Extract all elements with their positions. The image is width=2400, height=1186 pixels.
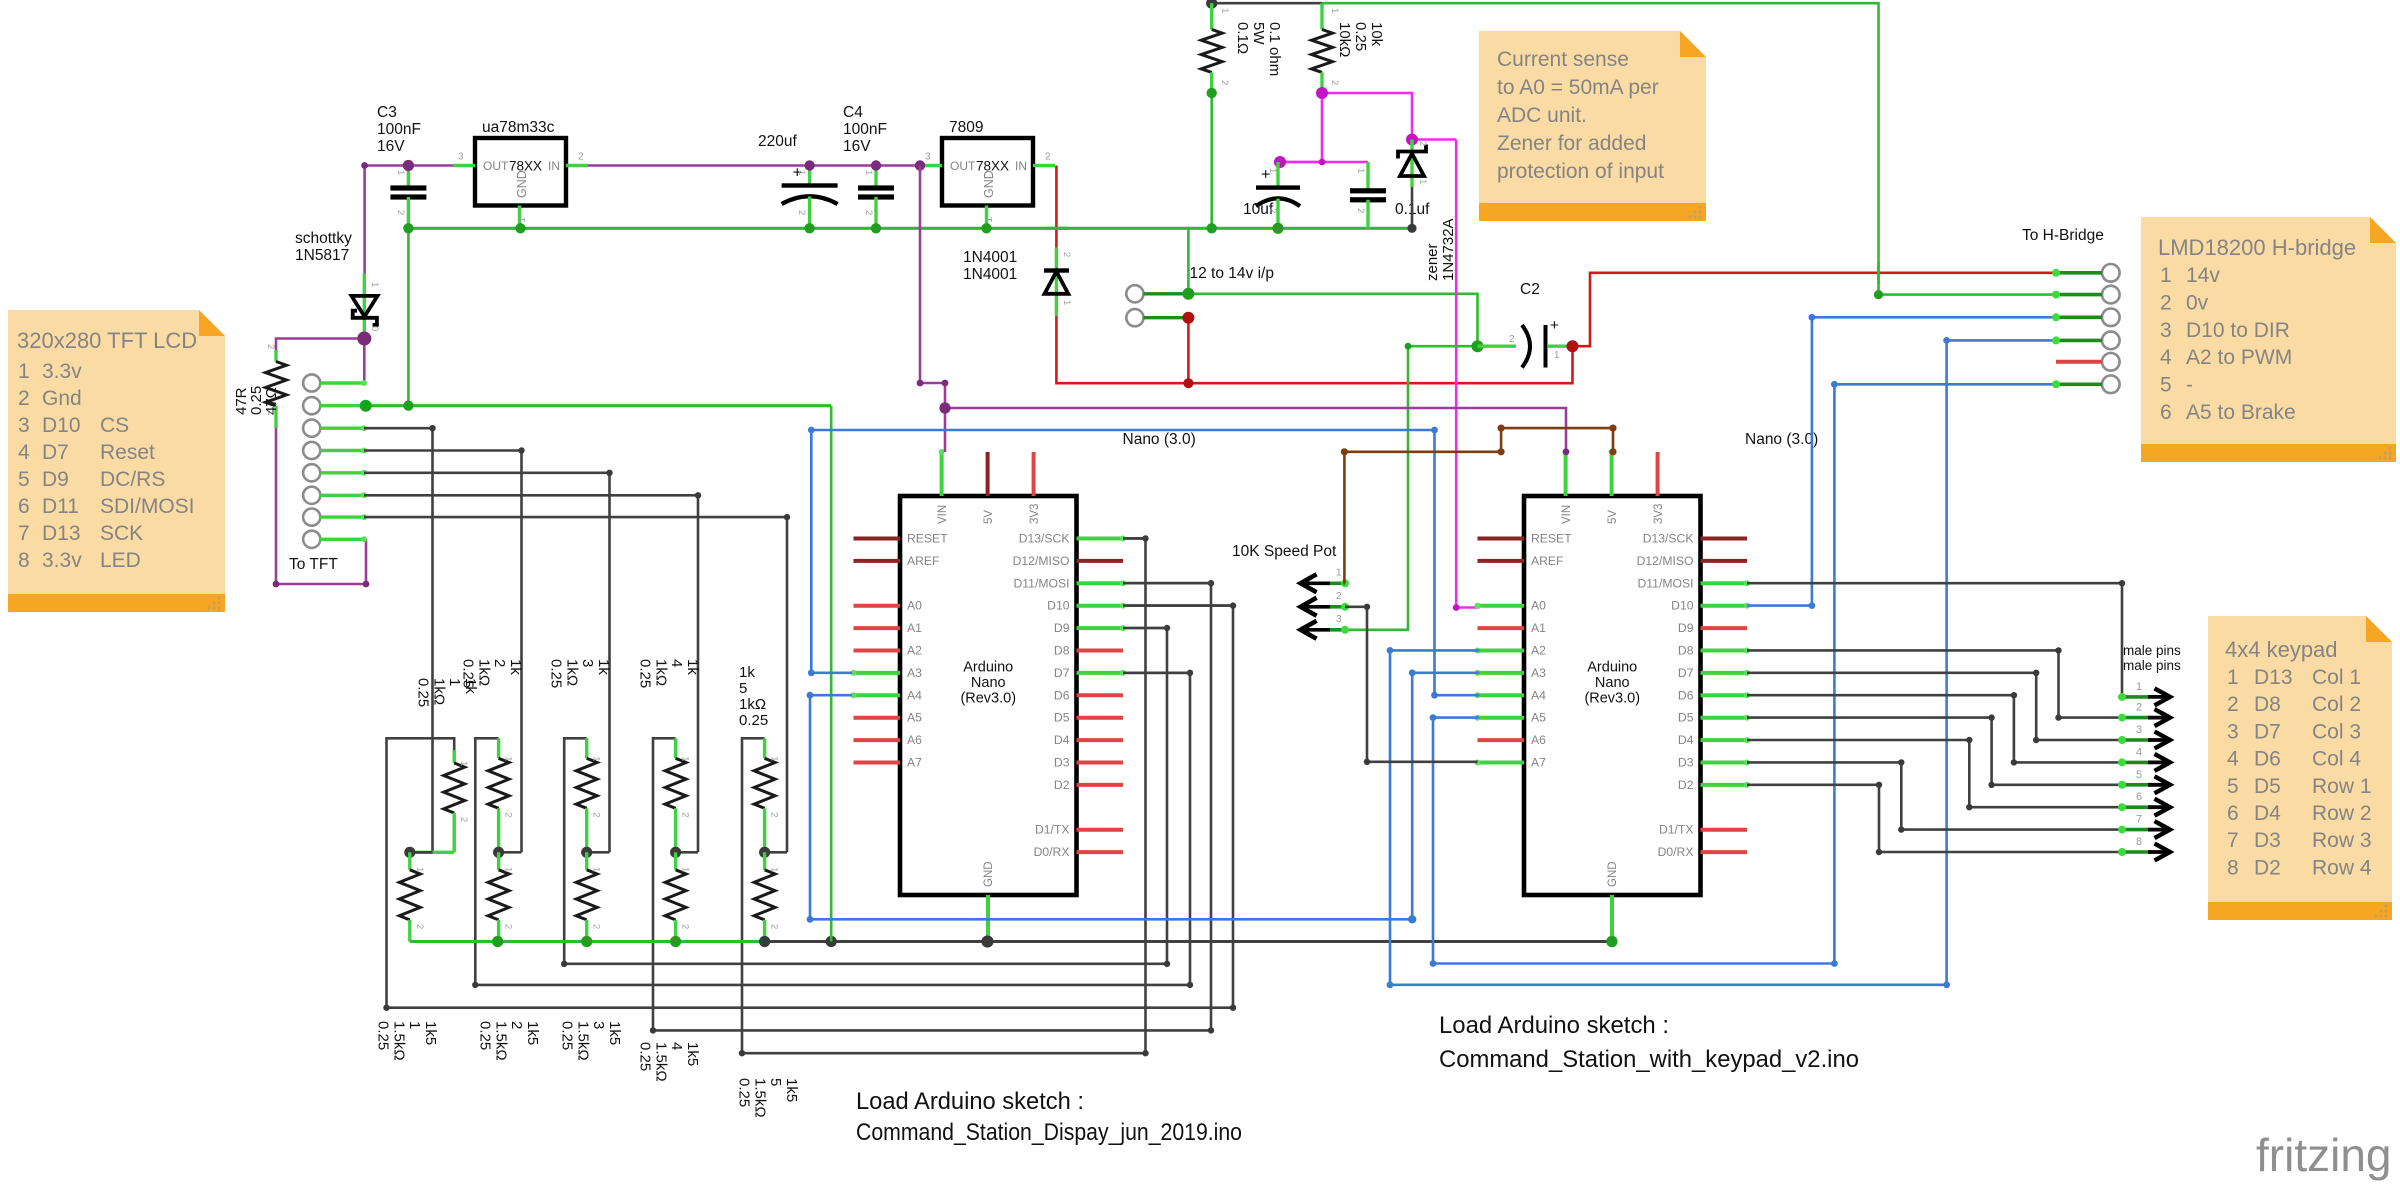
svg-text:To TFT: To TFT: [289, 556, 338, 573]
svg-text:1: 1: [1417, 179, 1428, 184]
svg-text:2: 2: [1219, 80, 1230, 85]
svg-text:1: 1: [1554, 350, 1560, 361]
wire green left nano GND: [986, 895, 990, 942]
junction purple 220uf: [804, 160, 814, 170]
svg-text:1: 1: [18, 360, 30, 383]
svg-text:1k: 1k: [595, 659, 612, 675]
svg-text:1: 1: [984, 217, 995, 223]
svg-text:0.25: 0.25: [548, 659, 565, 688]
svg-text:CS: CS: [100, 414, 129, 437]
wire black left nano D7: [1123, 671, 1190, 674]
svg-text:GND: GND: [515, 170, 529, 198]
svg-text:1kΩ: 1kΩ: [475, 659, 492, 686]
svg-text:3: 3: [2136, 724, 2142, 736]
svg-text:2: 2: [503, 924, 514, 929]
junction green bus: [581, 936, 592, 947]
svg-text:1k: 1k: [507, 659, 524, 675]
junction magenta zener: [1406, 134, 1418, 146]
wire purple 3.3V rail: [365, 164, 920, 167]
wire black junction to TFT step 2: [499, 851, 522, 854]
capacitor C2 electrolytic horizontal: [1478, 281, 1573, 368]
svg-text:1.5kΩ: 1.5kΩ: [652, 1042, 669, 1082]
svg-text:100nF: 100nF: [377, 121, 421, 138]
svg-text:Nano (3.0): Nano (3.0): [1745, 431, 1818, 448]
resistor 1k5 5: [754, 852, 780, 941]
diode 1N4001: [963, 248, 1069, 316]
label 0.1 ohm: [1234, 22, 1283, 76]
svg-text:schottky: schottky: [295, 230, 352, 247]
label 1k 1: [415, 678, 479, 707]
node blue A3 bend: [808, 427, 1438, 699]
svg-text:protection of input: protection of input: [1497, 160, 1664, 183]
svg-text:D5: D5: [2254, 775, 2281, 798]
wire red 7809 input feed: [1055, 166, 1058, 248]
wire black right nano keypad 3: [1747, 670, 2120, 744]
svg-text:1k5: 1k5: [524, 1021, 541, 1045]
wire black left nano D13: [1123, 537, 1146, 540]
svg-text:Row 4: Row 4: [2312, 856, 2372, 879]
svg-text:1k: 1k: [684, 659, 701, 675]
svg-text:2: 2: [1355, 208, 1366, 213]
svg-text:VIN: VIN: [1561, 505, 1573, 524]
svg-text:D7: D7: [42, 441, 69, 464]
svg-text:0.1 ohm: 0.1 ohm: [1266, 22, 1283, 76]
label To H-Bridge: [2022, 227, 2104, 244]
svg-text:7: 7: [2136, 814, 2142, 826]
junction green 10uf gnd: [1272, 223, 1283, 234]
svg-text:0.1Ω: 0.1Ω: [1234, 22, 1251, 54]
svg-text:16V: 16V: [843, 138, 871, 155]
wire red input pin2 drop: [1187, 318, 1190, 384]
resistor 1k 3: [576, 738, 602, 852]
svg-text:2: 2: [414, 924, 425, 929]
svg-text:D12/MISO: D12/MISO: [1637, 554, 1694, 568]
note 320x280 TFT LCD: [8, 310, 225, 612]
svg-text:D10 to DIR: D10 to DIR: [2186, 319, 2290, 342]
node green H-bridge bend: [1874, 290, 1883, 299]
junction green bus: [492, 936, 503, 947]
svg-text:D9: D9: [42, 468, 69, 491]
svg-text:5V: 5V: [983, 510, 995, 524]
svg-text:A5 to Brake: A5 to Brake: [2186, 401, 2296, 424]
svg-text:D11/MOSI: D11/MOSI: [1638, 576, 1694, 590]
svg-text:1: 1: [680, 756, 691, 761]
svg-text:D8: D8: [1054, 644, 1070, 658]
wire blue right A5 to H-bridge Brake: [1433, 384, 2056, 963]
capacitor 220uf electrolytic: [758, 133, 838, 228]
wire black right nano keypad 6: [1747, 737, 2120, 811]
node purple right VIN bend: [1563, 448, 1570, 455]
svg-text:5: 5: [739, 680, 747, 697]
svg-text:1N4732A: 1N4732A: [1440, 218, 1457, 281]
label 1k 5: [739, 664, 768, 729]
junction magenta 10uf: [1274, 156, 1286, 168]
svg-text:D13/SCK: D13/SCK: [1019, 532, 1070, 546]
svg-text:4: 4: [2227, 748, 2239, 771]
junction bus right nano GND: [1606, 936, 1617, 947]
svg-text:Row 2: Row 2: [2312, 802, 2372, 825]
wire green 0.1ohm to bus: [1210, 93, 1213, 228]
svg-text:0.25: 0.25: [415, 678, 432, 707]
svg-text:2: 2: [2160, 291, 2172, 314]
junction red input pin2: [1182, 312, 1194, 324]
junction bus black-green: [759, 936, 770, 947]
svg-text:A3: A3: [907, 666, 922, 680]
node brown bends: [1341, 425, 1617, 456]
svg-text:4: 4: [18, 441, 30, 464]
capacitor 10uf electrolytic: [1243, 162, 1300, 228]
svg-text:-: -: [2186, 374, 2193, 397]
wire black left nano D11: [1123, 582, 1211, 585]
wire black TFT pin7 step: [364, 517, 787, 852]
svg-text:4: 4: [2160, 346, 2172, 369]
svg-text:3: 3: [1336, 614, 1342, 625]
junction purple 7809 out: [915, 160, 925, 170]
node blue D10 bends: [1809, 314, 1816, 609]
svg-text:2: 2: [395, 210, 406, 215]
junction green C2: [1472, 340, 1484, 352]
label 1k5 2: [477, 1021, 541, 1061]
svg-text:2: 2: [491, 659, 508, 667]
svg-text:0.25: 0.25: [1352, 22, 1369, 51]
svg-text:1kΩ: 1kΩ: [739, 696, 766, 713]
svg-text:D13/SCK: D13/SCK: [1643, 532, 1694, 546]
svg-text:Zener for added: Zener for added: [1497, 132, 1646, 155]
wire green bus overlay: [1046, 227, 1068, 230]
svg-text:C2: C2: [1520, 281, 1540, 298]
wire magenta down to caps: [1280, 93, 1322, 162]
label schottky: [295, 230, 352, 264]
svg-text:16V: 16V: [377, 138, 405, 155]
wire green input riser to bus: [1187, 228, 1190, 293]
wire green overlay at red crossing: [1877, 262, 1880, 284]
svg-text:Nano: Nano: [1595, 675, 1630, 691]
svg-text:1: 1: [2160, 264, 2172, 287]
IC U2 Arduino Nano right: [1475, 449, 1751, 945]
svg-text:D4: D4: [1678, 733, 1694, 747]
svg-text:6: 6: [2136, 791, 2142, 803]
junction bus nano GND top: [982, 936, 994, 948]
junction green TFT pin2: [360, 400, 372, 412]
svg-text:3: 3: [925, 152, 931, 163]
svg-text:Arduino: Arduino: [1587, 660, 1637, 676]
svg-text:4: 4: [668, 659, 685, 667]
junction green C3 gnd: [403, 223, 413, 233]
svg-text:2: 2: [265, 344, 276, 349]
junction green bus: [670, 936, 681, 947]
voltage regulator 7809: [920, 119, 1055, 228]
wire green 12v input to C2: [1188, 294, 1477, 346]
svg-text:0.25: 0.25: [477, 1021, 494, 1050]
svg-text:1: 1: [1355, 168, 1366, 173]
wire black junction to TFT step 1: [410, 851, 433, 854]
label sketch left: [856, 1088, 1242, 1146]
svg-text:D8: D8: [2254, 693, 2281, 716]
svg-text:A3: A3: [1531, 666, 1546, 680]
node black zener bus: [1407, 224, 1416, 233]
svg-text:4: 4: [2136, 746, 2142, 758]
svg-text:VIN: VIN: [937, 505, 949, 524]
resistor 10k 0.25: [1312, 3, 1333, 93]
svg-text:D11/MOSI: D11/MOSI: [1014, 576, 1070, 590]
label 1k5 3: [559, 1021, 623, 1061]
svg-text:2: 2: [863, 210, 874, 215]
junction divider 2: [493, 847, 504, 858]
svg-text:D1/TX: D1/TX: [1659, 823, 1694, 837]
svg-text:1: 1: [503, 756, 514, 761]
svg-text:A2: A2: [1531, 644, 1546, 658]
wire black right nano keypad 2: [1747, 647, 2120, 721]
node black TFT pin3 bend: [429, 425, 435, 431]
svg-text:(Rev3.0): (Rev3.0): [1584, 691, 1640, 707]
svg-text:0: 0: [369, 326, 380, 331]
svg-text:D6: D6: [2254, 748, 2281, 771]
svg-text:1N4001: 1N4001: [963, 266, 1017, 283]
wire black nano-left D to divider 5: [739, 535, 1149, 1056]
svg-text:2: 2: [769, 924, 780, 929]
junction purple schottky: [357, 332, 371, 346]
svg-text:0.25: 0.25: [559, 1021, 576, 1050]
svg-text:2: 2: [2227, 693, 2239, 716]
capacitor 0.1uf: [1350, 162, 1430, 228]
svg-text:1: 1: [406, 1021, 423, 1029]
wire green to speed pot3: [1345, 346, 1408, 630]
svg-text:2: 2: [796, 210, 807, 215]
junction bus green riser: [826, 936, 837, 947]
svg-text:D5: D5: [1678, 711, 1694, 725]
svg-text:D0/RX: D0/RX: [1034, 845, 1070, 859]
wire black right nano keypad 4: [1747, 692, 2120, 766]
svg-text:D11: D11: [42, 495, 79, 518]
pin numbers 0.1uf: [1355, 168, 1366, 213]
note 4x4 keypad: [2208, 616, 2392, 920]
svg-text:Col 1: Col 1: [2312, 666, 2361, 689]
pin numbers 47R: [265, 344, 276, 415]
connector male pins 8-pin: [2118, 681, 2170, 861]
connector To H-Bridge 6-pin: [2052, 264, 2120, 393]
pin numbers C3: [395, 170, 406, 215]
svg-text:1k: 1k: [739, 664, 755, 681]
svg-text:D3: D3: [1678, 756, 1694, 770]
svg-text:Arduino: Arduino: [963, 660, 1013, 676]
svg-text:LMD18200 H-bridge: LMD18200 H-bridge: [2158, 235, 2356, 260]
node black pot bend: [1364, 604, 1370, 765]
svg-text:1: 1: [2136, 681, 2142, 693]
node black TFT pin5 bend: [606, 470, 612, 476]
pin numbers 0.1ohm: [1219, 8, 1230, 85]
svg-text:GND: GND: [1607, 861, 1619, 887]
svg-text:5: 5: [767, 1078, 784, 1086]
svg-text:10k: 10k: [1368, 22, 1385, 47]
wire black top feed: [1212, 2, 1322, 5]
connector 12 to 14v input pin1: [1126, 285, 1188, 302]
svg-text:0.25: 0.25: [375, 1021, 392, 1050]
wire green C3 gnd drop to TFT row: [407, 228, 410, 405]
pin numbers 1N4001: [1061, 252, 1072, 305]
svg-text:RESET: RESET: [1531, 532, 1572, 546]
voltage regulator ua78m33c: [453, 119, 588, 228]
svg-text:2: 2: [769, 812, 780, 817]
wire black TFT pin3 step: [364, 428, 433, 852]
diode schottky 1N5817: [352, 274, 378, 334]
svg-text:SCK: SCK: [100, 522, 143, 545]
resistor 1k5 2: [488, 852, 513, 941]
svg-text:1: 1: [863, 170, 874, 175]
svg-text:7: 7: [18, 522, 30, 545]
svg-text:RESET: RESET: [907, 532, 948, 546]
svg-text:3: 3: [2227, 720, 2239, 743]
junction purple VIN: [939, 402, 950, 413]
svg-text:Gnd: Gnd: [42, 387, 82, 410]
svg-text:2: 2: [1509, 334, 1515, 345]
svg-text:1k5: 1k5: [684, 1042, 701, 1066]
node blue A4 bend: [807, 669, 1417, 923]
svg-text:A5: A5: [1531, 711, 1546, 725]
node green bend pot: [1405, 343, 1412, 350]
svg-text:male pins: male pins: [2123, 643, 2181, 658]
junction magenta 10k: [1316, 87, 1328, 99]
svg-text:2: 2: [503, 812, 514, 817]
svg-text:0.25: 0.25: [460, 659, 477, 688]
svg-text:GND: GND: [983, 861, 995, 887]
junction green 7809 gnd: [981, 223, 991, 233]
svg-text:Col 3: Col 3: [2312, 720, 2361, 743]
svg-text:Current sense: Current sense: [1497, 48, 1629, 71]
junction green TFT riser: [403, 401, 413, 411]
svg-text:3.3v: 3.3v: [42, 549, 82, 572]
svg-text:A2: A2: [907, 644, 922, 658]
svg-text:Col 4: Col 4: [2312, 748, 2361, 771]
svg-text:A2 to PWM: A2 to PWM: [2186, 346, 2292, 369]
svg-text:A5: A5: [907, 711, 922, 725]
wire green right nano GND: [1610, 895, 1614, 942]
wire black ground bus bottom: [765, 940, 1612, 943]
node purple bend 383: [917, 380, 949, 387]
wire purple to TFT pin1: [363, 339, 366, 384]
capacitor C3 100nF: [377, 104, 426, 228]
note LMD18200 H-bridge: [2141, 217, 2396, 462]
junction red bottom: [1183, 378, 1193, 388]
svg-text:3: 3: [458, 152, 464, 163]
svg-text:2: 2: [680, 924, 691, 929]
node purple bend2: [363, 581, 370, 588]
resistor 1k5 1: [399, 852, 425, 941]
resistor 1k5 4: [665, 852, 691, 941]
node black TFT pin7 bend: [784, 514, 790, 520]
label 1k 4: [637, 659, 701, 688]
junction green C4 gnd: [871, 223, 881, 233]
wire purple schottky drop: [363, 166, 366, 274]
svg-text:D1/TX: D1/TX: [1035, 823, 1070, 837]
svg-text:A4: A4: [907, 688, 922, 702]
capacitor C4 100nF: [843, 104, 894, 228]
svg-text:3V3: 3V3: [1653, 504, 1665, 524]
wire black TFT pin6 step: [364, 495, 698, 852]
connector 10K speed pot: [1301, 567, 1349, 639]
svg-text:D4: D4: [2254, 802, 2281, 825]
junction bus nano GND: [982, 936, 994, 948]
label Nano (3.0) right: [1745, 431, 1818, 448]
svg-text:D2: D2: [2254, 856, 2281, 879]
svg-text:Nano (3.0): Nano (3.0): [1123, 431, 1196, 448]
wire green ground bus bottom: [410, 940, 765, 943]
svg-text:C3: C3: [377, 104, 397, 121]
svg-text:6: 6: [2160, 401, 2172, 424]
label To TFT: [289, 556, 338, 573]
svg-text:1kΩ: 1kΩ: [652, 659, 669, 686]
svg-text:C4: C4: [843, 104, 863, 121]
junction red C2: [1567, 340, 1579, 352]
wire purple left nano VIN: [944, 408, 947, 452]
diode zener 1N4732A: [1398, 140, 1426, 229]
wire black pot pin2 to right A7: [1345, 607, 1478, 762]
svg-text:1: 1: [591, 756, 602, 761]
wire black right nano keypad 1: [1747, 580, 2125, 700]
svg-text:3: 3: [579, 659, 596, 667]
wire blue left A4 to right A3: [810, 673, 1480, 920]
connector 12 to 14v input pin2: [1126, 309, 1188, 326]
svg-text:3: 3: [2160, 319, 2172, 342]
svg-text:A0: A0: [907, 599, 922, 613]
junction bus right nano GND top: [1606, 936, 1617, 947]
label 1k 3: [548, 659, 612, 688]
svg-text:0.25: 0.25: [739, 712, 768, 729]
svg-text:Command_Station_with_keypad_v2: Command_Station_with_keypad_v2.ino: [1439, 1046, 1859, 1073]
svg-text:320x280 TFT LCD: 320x280 TFT LCD: [17, 328, 197, 353]
wire black TFT pin5 step: [364, 473, 610, 853]
pin numbers 220uf: [796, 170, 807, 215]
svg-text:1: 1: [1061, 300, 1072, 305]
svg-text:OUT: OUT: [483, 159, 509, 173]
wire black nano-left D to divider 1: [383, 602, 1236, 1011]
label male pins: [2123, 643, 2181, 673]
pin numbers 10k: [1329, 8, 1340, 85]
svg-text:2: 2: [1336, 591, 1342, 602]
svg-text:2: 2: [680, 812, 691, 817]
svg-text:D10: D10: [1047, 599, 1070, 613]
svg-text:D2: D2: [1054, 778, 1070, 792]
svg-text:D7: D7: [1054, 666, 1070, 680]
svg-text:D10: D10: [42, 414, 81, 437]
resistor 0.1 ohm 5W: [1201, 3, 1222, 93]
svg-text:10kΩ: 10kΩ: [1336, 22, 1353, 57]
svg-text:D13: D13: [42, 522, 81, 545]
svg-text:1: 1: [458, 761, 469, 766]
svg-text:2: 2: [591, 812, 602, 817]
svg-text:3.3v: 3.3v: [42, 360, 82, 383]
svg-text:1: 1: [796, 170, 807, 175]
resistor 1k5 3: [576, 852, 602, 941]
svg-text:5W: 5W: [1250, 22, 1267, 45]
label sketch right: [1439, 1012, 1859, 1073]
svg-text:A1: A1: [907, 621, 922, 635]
note Current sense: [1479, 31, 1706, 221]
junction divider 1: [404, 847, 415, 858]
junction divider 3: [581, 847, 592, 858]
svg-text:7: 7: [2227, 829, 2239, 852]
svg-text:1: 1: [503, 867, 514, 872]
label 47R: [233, 386, 280, 415]
svg-text:D5: D5: [1054, 711, 1070, 725]
svg-text:8: 8: [2136, 836, 2142, 848]
wire purple 47R to TFT pin8: [276, 428, 366, 584]
svg-text:5: 5: [2160, 374, 2172, 397]
wire black left nano D9: [1123, 627, 1167, 630]
label 1k5 1: [375, 1021, 439, 1061]
wire magenta cap link: [1280, 161, 1368, 164]
svg-text:2: 2: [18, 387, 30, 410]
junction purple C3: [403, 160, 414, 171]
